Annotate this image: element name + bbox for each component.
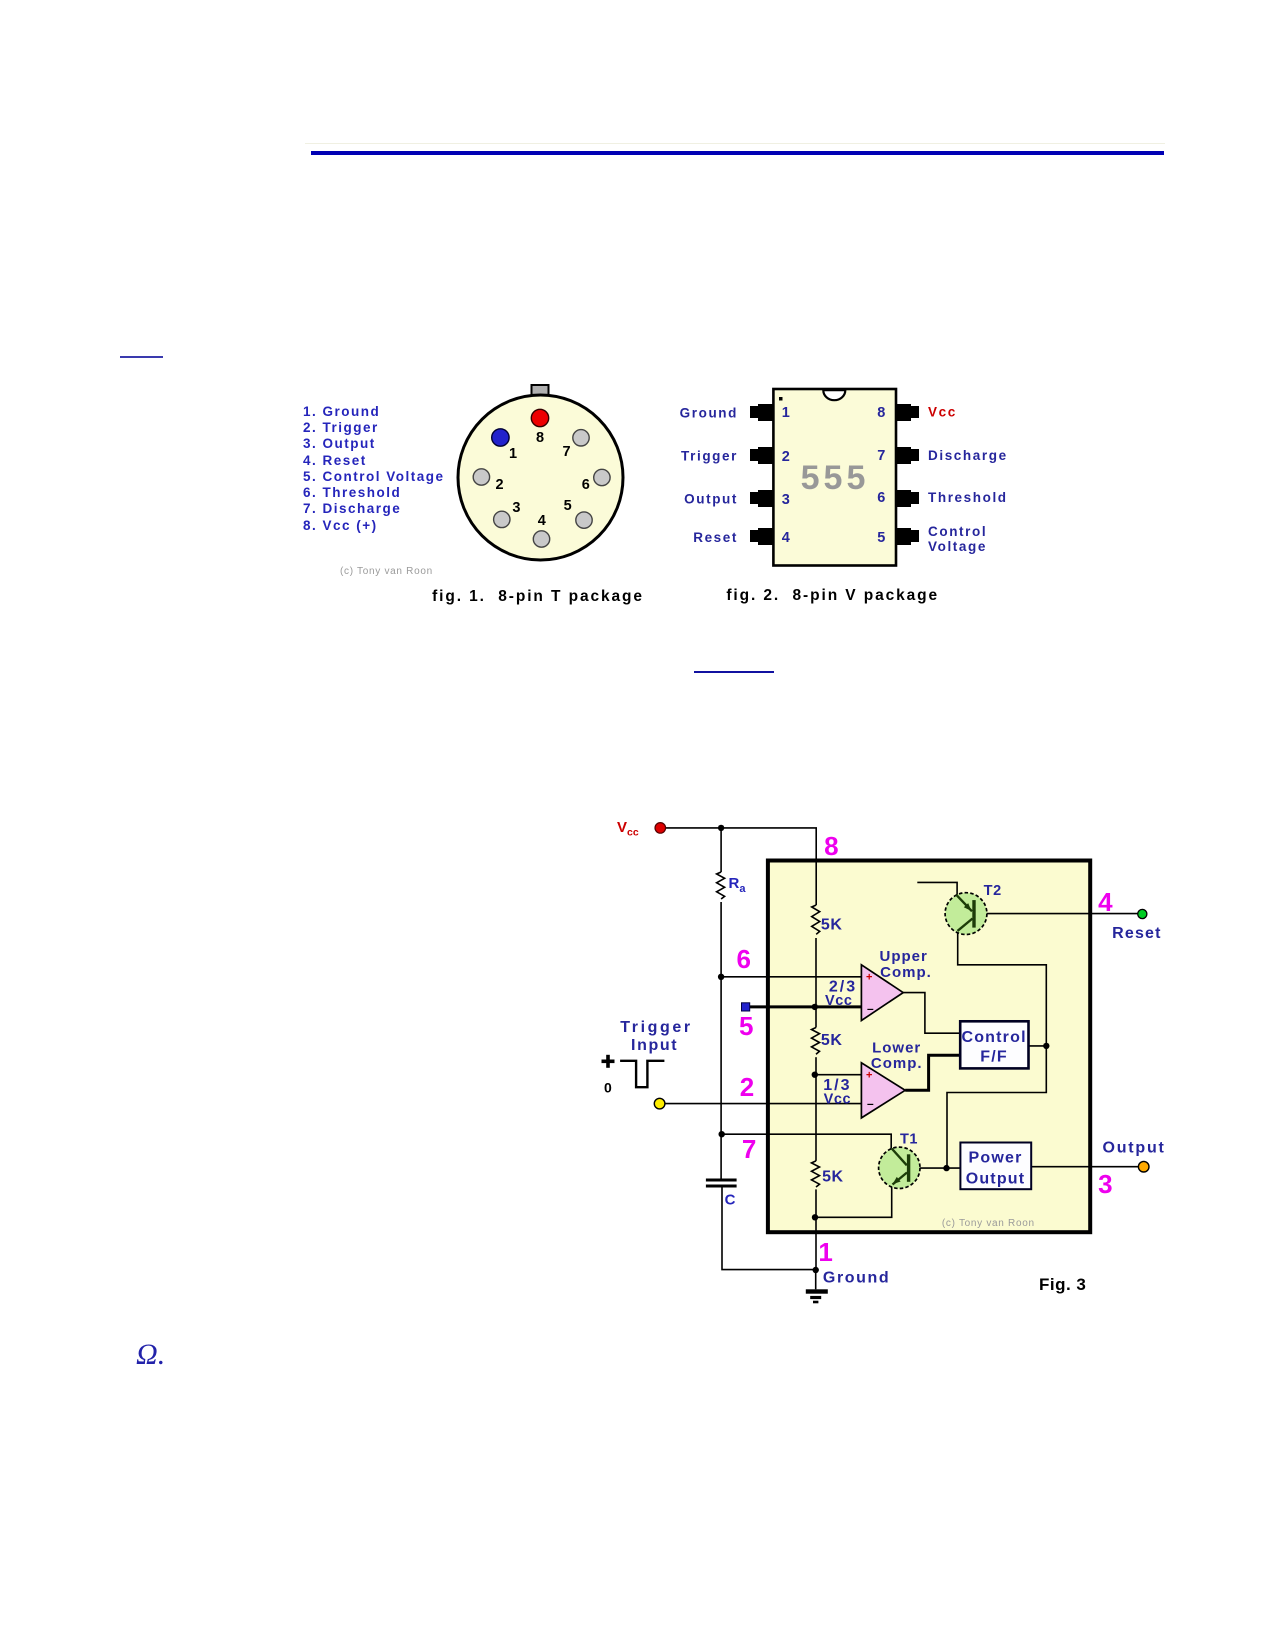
svg-text:5K: 5K xyxy=(821,917,843,934)
svg-text:2. Trigger: 2. Trigger xyxy=(303,420,379,435)
svg-text:Vcc: Vcc xyxy=(928,405,957,420)
svg-text:Fig. 3: Fig. 3 xyxy=(1039,1275,1086,1294)
svg-text:Output: Output xyxy=(684,492,738,507)
svg-text:Control: Control xyxy=(961,1029,1026,1046)
svg-text:3: 3 xyxy=(512,500,520,516)
svg-text:7: 7 xyxy=(877,448,885,464)
svg-text:Power: Power xyxy=(968,1150,1022,1167)
svg-text:Ground: Ground xyxy=(680,406,738,421)
svg-text:2: 2 xyxy=(495,477,503,493)
svg-text:2: 2 xyxy=(782,449,790,465)
svg-text:T2: T2 xyxy=(984,883,1002,899)
svg-text:–: – xyxy=(867,1002,874,1016)
svg-text:fig. 1. 8-pin T package: fig. 1. 8-pin T package xyxy=(432,588,644,605)
svg-text:8: 8 xyxy=(877,405,885,421)
svg-text:5. Control Voltage: 5. Control Voltage xyxy=(303,469,445,484)
svg-text:1: 1 xyxy=(509,446,517,462)
svg-text:3: 3 xyxy=(782,492,790,508)
svg-text:555: 555 xyxy=(801,459,870,497)
svg-text:5K: 5K xyxy=(821,1032,843,1049)
svg-text:(c) Tony van Roon: (c) Tony van Roon xyxy=(942,1218,1035,1229)
svg-text:Upper: Upper xyxy=(880,948,928,965)
svg-text:Ground: Ground xyxy=(823,1270,890,1287)
svg-text:Threshold: Threshold xyxy=(928,490,1008,505)
svg-text:(c) Tony van Roon: (c) Tony van Roon xyxy=(340,566,433,577)
svg-text:Lower: Lower xyxy=(872,1040,921,1057)
svg-text:Reset: Reset xyxy=(1112,925,1162,942)
svg-text:C: C xyxy=(725,1192,736,1209)
svg-text:4: 4 xyxy=(538,513,546,529)
svg-text:6: 6 xyxy=(582,477,590,493)
svg-text:5: 5 xyxy=(739,1011,753,1041)
svg-text:1: 1 xyxy=(782,405,790,421)
svg-text:3: 3 xyxy=(1098,1169,1112,1199)
svg-text:Vcc: Vcc xyxy=(617,819,639,839)
svg-text:+: + xyxy=(866,972,872,984)
svg-text:fig. 2. 8-pin V package: fig. 2. 8-pin V package xyxy=(726,587,939,604)
svg-text:Vcc: Vcc xyxy=(825,993,853,1009)
svg-text:8: 8 xyxy=(536,430,544,446)
svg-text:1: 1 xyxy=(818,1237,832,1267)
svg-text:Input: Input xyxy=(631,1037,678,1054)
svg-text:6: 6 xyxy=(877,490,885,506)
svg-text:Trigger: Trigger xyxy=(620,1019,692,1036)
svg-text:Reset: Reset xyxy=(693,530,738,545)
svg-text:4: 4 xyxy=(1098,887,1113,917)
svg-text:Comp.: Comp. xyxy=(880,964,932,981)
svg-text:6. Threshold: 6. Threshold xyxy=(303,485,401,500)
svg-text:Trigger: Trigger xyxy=(681,449,738,464)
svg-text:5: 5 xyxy=(877,530,885,546)
svg-text:5: 5 xyxy=(564,498,572,514)
svg-text:Discharge: Discharge xyxy=(928,448,1008,463)
svg-text:2: 2 xyxy=(740,1072,754,1102)
svg-text:0: 0 xyxy=(604,1080,612,1096)
svg-text:3. Output: 3. Output xyxy=(303,436,376,451)
svg-text:8: 8 xyxy=(824,831,838,861)
svg-text:Control: Control xyxy=(928,524,987,539)
svg-text:Ra: Ra xyxy=(729,875,747,895)
svg-text:7: 7 xyxy=(562,444,570,460)
svg-text:6: 6 xyxy=(736,944,750,974)
svg-text:1. Ground: 1. Ground xyxy=(303,404,380,419)
svg-text:4: 4 xyxy=(782,530,790,546)
svg-text:Output: Output xyxy=(966,1171,1026,1188)
svg-text:T1: T1 xyxy=(900,1132,918,1148)
svg-text:7. Discharge: 7. Discharge xyxy=(303,501,401,516)
svg-text:5K: 5K xyxy=(822,1169,844,1186)
svg-text:–: – xyxy=(867,1097,874,1111)
svg-text:Voltage: Voltage xyxy=(928,539,987,554)
svg-text:Vcc: Vcc xyxy=(824,1092,852,1108)
svg-text:8. Vcc (+): 8. Vcc (+) xyxy=(303,518,378,533)
svg-text:Output: Output xyxy=(1102,1140,1165,1157)
svg-text:F/F: F/F xyxy=(980,1049,1008,1066)
svg-text:Comp.: Comp. xyxy=(871,1055,923,1072)
svg-text:4. Reset: 4. Reset xyxy=(303,453,367,468)
svg-text:7: 7 xyxy=(742,1134,756,1164)
